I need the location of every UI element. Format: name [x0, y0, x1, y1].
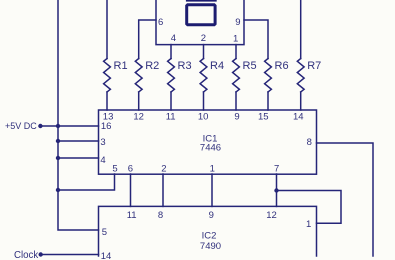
- node junction dot bus pin3: [56, 139, 60, 143]
- node junction dot +5V terminal: [38, 124, 42, 128]
- resistor R1: [104, 59, 111, 93]
- wire R4 bottom lead: [203, 92, 205, 110]
- wire IC1 pin 4 to bus: [58, 157, 99, 159]
- wire R2 bottom lead: [138, 92, 140, 110]
- svg-text:6: 6: [128, 164, 133, 175]
- svg-text:9: 9: [209, 210, 214, 221]
- wire R3 bottom lead: [170, 92, 172, 110]
- svg-text:12: 12: [266, 210, 277, 221]
- node junction dot Clock terminal: [39, 252, 43, 256]
- wire +5V bus vertical: [58, 0, 99, 230]
- node junction dot bus pin5: [56, 188, 60, 192]
- svg-text:10: 10: [198, 112, 209, 123]
- wire IC1 pin 6 to IC2 pin 11: [130, 174, 132, 206]
- node junction dot bus pin16: [56, 124, 60, 128]
- svg-text:14: 14: [101, 251, 112, 260]
- svg-text:1: 1: [306, 219, 311, 230]
- counter IC2 7490 box: [99, 206, 317, 256]
- wire +5V DC to IC1 pin 16: [40, 125, 98, 127]
- svg-text:9: 9: [235, 17, 240, 28]
- svg-text:Clock: Clock: [14, 250, 38, 260]
- svg-text:14: 14: [293, 112, 304, 123]
- wire R5 bottom lead: [235, 92, 237, 110]
- resistor R5: [233, 59, 240, 93]
- wire R7 top lead: [300, 0, 302, 59]
- svg-text:R5: R5: [243, 60, 257, 72]
- wire IC1 pin 8 to right rail: [317, 143, 374, 256]
- resistor R2: [135, 59, 142, 93]
- svg-text:15: 15: [258, 112, 269, 123]
- wire IC1 pin 5 to bus: [58, 174, 115, 190]
- svg-text:7446: 7446: [200, 143, 221, 154]
- svg-text:4: 4: [100, 155, 105, 166]
- resistor R4: [200, 59, 207, 93]
- resistor R6: [265, 59, 272, 93]
- svg-text:7490: 7490: [200, 241, 221, 252]
- wire IC1 pin 3 to bus: [58, 140, 99, 142]
- op-amp IC1 7446 box: [99, 110, 317, 174]
- svg-text:IC2: IC2: [202, 230, 217, 241]
- svg-text:1: 1: [210, 164, 215, 175]
- svg-text:R1: R1: [114, 60, 128, 72]
- svg-text:R7: R7: [307, 60, 321, 72]
- node junction dot bus pin4: [56, 156, 60, 160]
- svg-text:+5V DC: +5V DC: [5, 121, 37, 131]
- wire R7 bottom lead: [300, 92, 302, 110]
- svg-text:11: 11: [166, 112, 176, 123]
- node junction dot IC1 pin7 net: [274, 188, 278, 192]
- svg-text:R4: R4: [210, 60, 224, 72]
- 7-segment digit upper segment (cut at top): [186, 0, 217, 2]
- svg-text:5: 5: [102, 227, 107, 238]
- svg-text:16: 16: [101, 121, 112, 132]
- svg-text:R3: R3: [178, 60, 192, 72]
- wire IC1 pin 2 to IC2 pin 8: [162, 174, 164, 206]
- svg-text:5: 5: [112, 164, 117, 175]
- wire R5 top lead to display pin 1: [235, 45, 237, 59]
- svg-text:2: 2: [161, 164, 166, 175]
- 7-segment display DIS1 box: [156, 0, 244, 45]
- svg-text:12: 12: [133, 112, 144, 123]
- svg-text:3: 3: [100, 137, 105, 148]
- wire node pin7 junction to IC2 pin 1: [277, 191, 342, 224]
- wire R3 top lead to display pin 4: [170, 45, 172, 59]
- svg-text:1: 1: [233, 34, 238, 45]
- resistor R7: [297, 59, 304, 93]
- wire R4 top lead to display pin 2: [203, 45, 205, 59]
- wire display pin 9 to R6 top lead: [244, 20, 268, 59]
- wire IC1 pin 7 to IC2 pin 12: [276, 174, 278, 206]
- wire R1 top lead: [106, 0, 108, 59]
- wire R2 top lead to display pin 6: [139, 20, 156, 59]
- svg-text:2: 2: [201, 33, 206, 44]
- svg-text:8: 8: [307, 137, 312, 148]
- 7-segment digit segments G-E-C-D ring: [185, 3, 216, 26]
- svg-text:R2: R2: [145, 60, 159, 72]
- svg-text:6: 6: [158, 17, 163, 28]
- svg-text:8: 8: [158, 210, 163, 221]
- wire R1 bottom lead: [106, 92, 108, 110]
- svg-text:4: 4: [171, 33, 176, 44]
- svg-text:R6: R6: [275, 60, 289, 72]
- wire Clock to IC2 pin 14: [41, 254, 99, 256]
- wire IC1 pin 1 to IC2 pin 9: [211, 174, 213, 206]
- svg-text:7: 7: [274, 164, 279, 175]
- resistor R3: [168, 59, 175, 93]
- wire R6 bottom lead: [267, 92, 269, 110]
- svg-text:9: 9: [234, 112, 239, 123]
- svg-text:11: 11: [127, 210, 137, 221]
